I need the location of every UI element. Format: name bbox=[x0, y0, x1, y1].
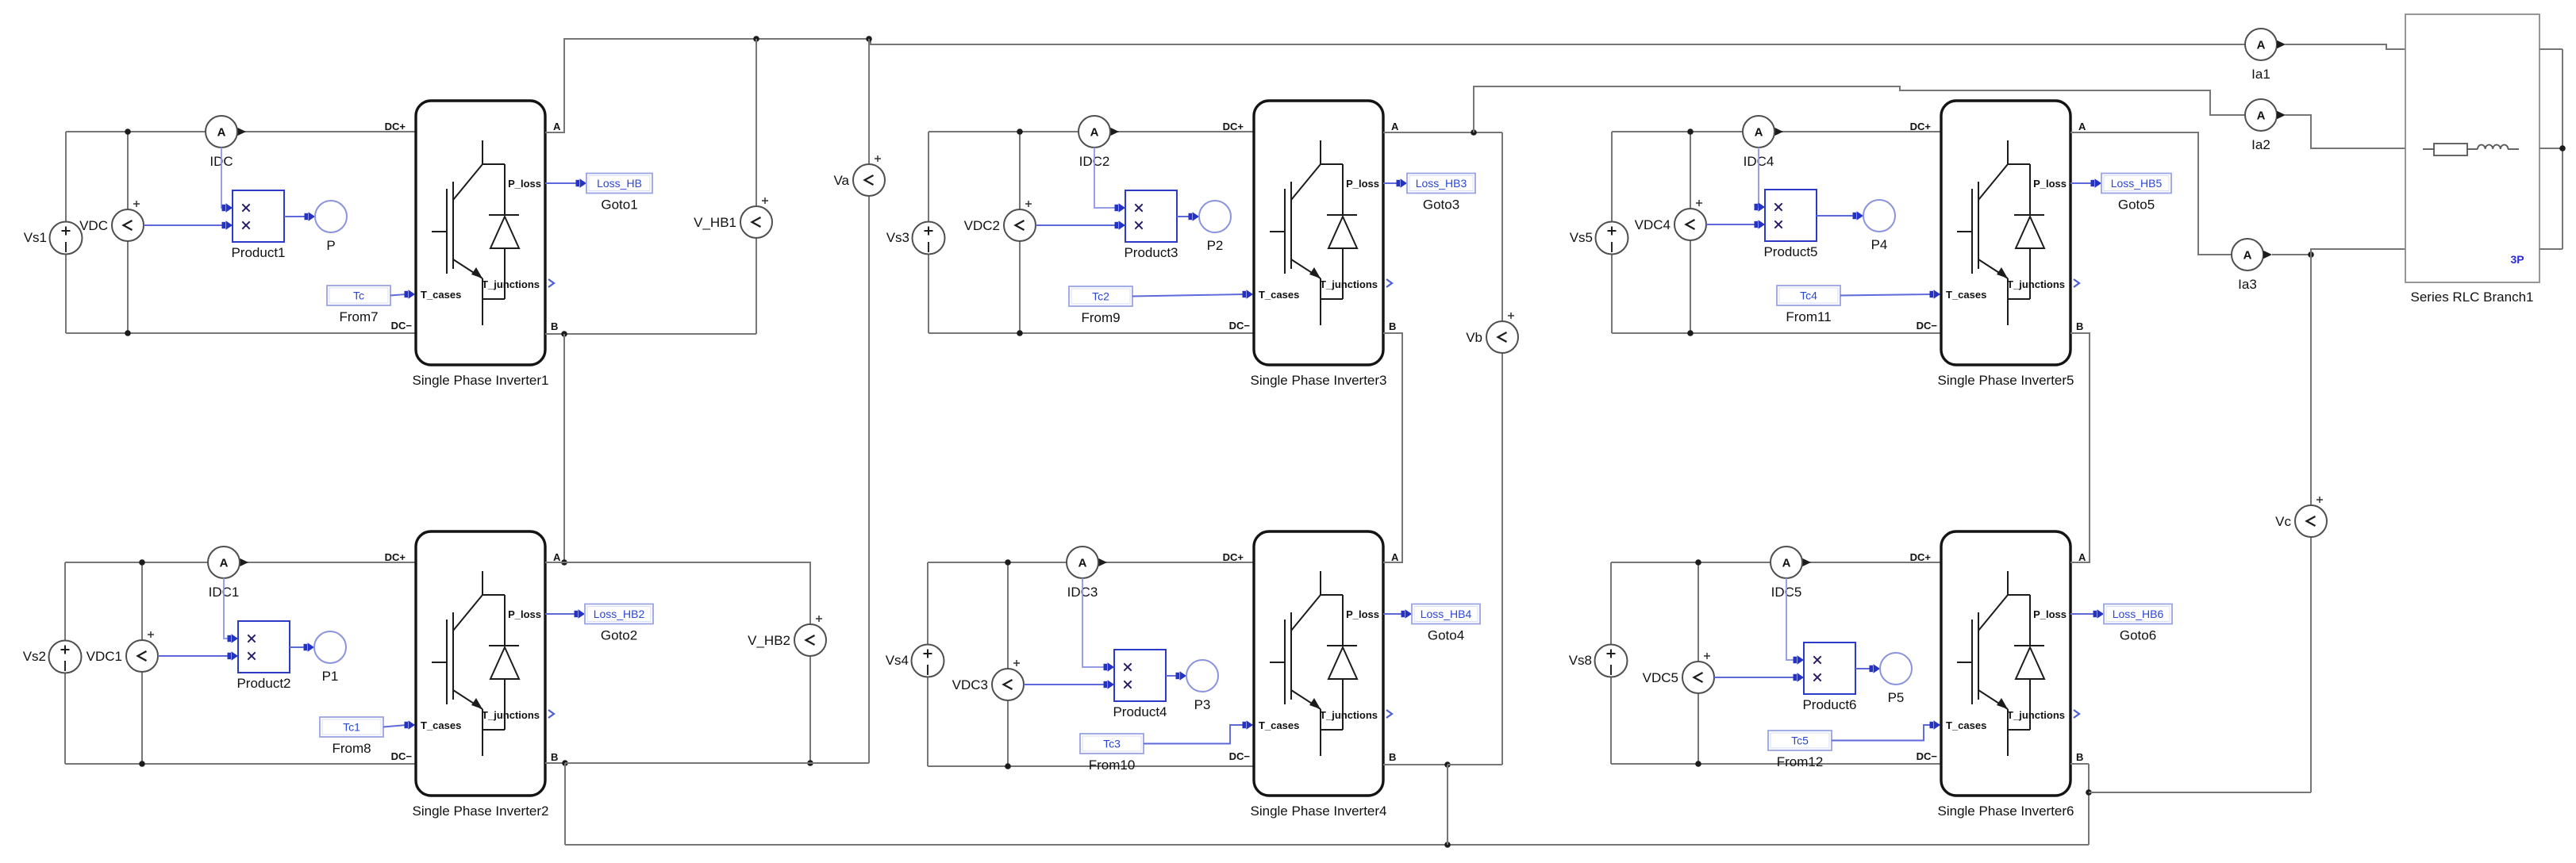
svg-text:DC−: DC− bbox=[1917, 320, 1938, 332]
svg-text:Single Phase Inverter5: Single Phase Inverter5 bbox=[1938, 373, 2074, 388]
svg-text:T_cases: T_cases bbox=[421, 289, 461, 301]
svg-text:P_loss: P_loss bbox=[2033, 608, 2067, 620]
svg-text:A: A bbox=[553, 551, 561, 563]
svg-text:P3: P3 bbox=[1194, 697, 1211, 712]
svg-text:Goto4: Goto4 bbox=[1428, 628, 1464, 643]
svg-text:A: A bbox=[1090, 126, 1099, 140]
svg-text:A: A bbox=[2243, 249, 2252, 263]
svg-text:A: A bbox=[553, 121, 561, 132]
svg-text:Single Phase Inverter6: Single Phase Inverter6 bbox=[1938, 804, 2074, 819]
svg-text:T_junctions: T_junctions bbox=[1320, 709, 1378, 721]
svg-text:VDC3: VDC3 bbox=[952, 677, 988, 692]
svg-text:Single Phase Inverter2: Single Phase Inverter2 bbox=[413, 804, 549, 819]
svg-text:T_junctions: T_junctions bbox=[2007, 278, 2065, 290]
svg-text:P: P bbox=[326, 238, 335, 253]
svg-text:P4: P4 bbox=[1871, 237, 1888, 252]
svg-text:P_loss: P_loss bbox=[508, 178, 541, 190]
svg-text:Series RLC Branch1: Series RLC Branch1 bbox=[2411, 290, 2534, 305]
svg-text:Loss_HB5: Loss_HB5 bbox=[2111, 177, 2163, 190]
svg-text:P_loss: P_loss bbox=[1346, 178, 1379, 190]
svg-text:Product2: Product2 bbox=[236, 676, 290, 691]
svg-text:DC−: DC− bbox=[391, 750, 413, 762]
svg-text:Vs8: Vs8 bbox=[1569, 653, 1592, 668]
svg-text:From8: From8 bbox=[332, 741, 371, 756]
svg-text:Vs2: Vs2 bbox=[23, 649, 46, 664]
svg-text:DC−: DC− bbox=[1229, 320, 1251, 332]
svg-text:Vs3: Vs3 bbox=[886, 230, 909, 245]
svg-text:B: B bbox=[551, 751, 558, 763]
svg-text:Single Phase Inverter4: Single Phase Inverter4 bbox=[1251, 804, 1387, 819]
svg-text:Tc: Tc bbox=[353, 290, 364, 302]
svg-text:T_cases: T_cases bbox=[1946, 289, 1986, 301]
svg-text:DC+: DC+ bbox=[385, 121, 406, 132]
svg-text:Product1: Product1 bbox=[231, 245, 285, 260]
svg-text:From9: From9 bbox=[1081, 310, 1120, 325]
svg-text:A: A bbox=[2257, 109, 2266, 123]
svg-text:From7: From7 bbox=[339, 309, 378, 324]
svg-text:Loss_HB3: Loss_HB3 bbox=[1416, 177, 1467, 190]
svg-text:Goto6: Goto6 bbox=[2120, 628, 2156, 643]
svg-text:Tc5: Tc5 bbox=[1791, 735, 1809, 747]
svg-text:Goto1: Goto1 bbox=[601, 198, 637, 213]
svg-text:V_HB1: V_HB1 bbox=[694, 215, 736, 230]
svg-text:Vs4: Vs4 bbox=[886, 653, 909, 668]
svg-text:From12: From12 bbox=[1777, 754, 1824, 769]
svg-text:Loss_HB: Loss_HB bbox=[597, 177, 642, 190]
svg-text:Ia2: Ia2 bbox=[2251, 137, 2270, 152]
svg-text:P_loss: P_loss bbox=[508, 608, 541, 620]
svg-text:DC−: DC− bbox=[391, 320, 413, 332]
svg-text:3P: 3P bbox=[2510, 253, 2524, 266]
svg-text:B: B bbox=[1389, 320, 1396, 332]
svg-text:B: B bbox=[2076, 320, 2083, 332]
svg-text:Loss_HB6: Loss_HB6 bbox=[2113, 608, 2164, 620]
svg-text:Loss_HB4: Loss_HB4 bbox=[1421, 608, 1472, 620]
svg-text:T_junctions: T_junctions bbox=[2007, 709, 2065, 721]
svg-text:Ia1: Ia1 bbox=[2251, 67, 2270, 82]
svg-text:Tc1: Tc1 bbox=[343, 721, 360, 734]
svg-text:T_cases: T_cases bbox=[1259, 719, 1299, 731]
svg-text:VDC5: VDC5 bbox=[1643, 670, 1678, 685]
svg-text:P_loss: P_loss bbox=[1346, 608, 1379, 620]
svg-text:DC+: DC+ bbox=[385, 551, 406, 563]
svg-text:P1: P1 bbox=[322, 669, 339, 684]
svg-text:A: A bbox=[2078, 121, 2086, 132]
svg-text:Vs5: Vs5 bbox=[1570, 230, 1593, 245]
svg-text:T_cases: T_cases bbox=[421, 719, 461, 731]
svg-text:DC−: DC− bbox=[1917, 750, 1938, 762]
svg-text:A: A bbox=[1391, 121, 1399, 132]
svg-text:From11: From11 bbox=[1786, 309, 1831, 324]
svg-text:A: A bbox=[2078, 551, 2086, 563]
svg-text:DC−: DC− bbox=[1229, 750, 1251, 762]
svg-text:P_loss: P_loss bbox=[2033, 178, 2067, 190]
svg-text:DC+: DC+ bbox=[1910, 121, 1932, 132]
svg-text:A: A bbox=[220, 557, 229, 570]
svg-text:Goto5: Goto5 bbox=[2118, 198, 2155, 213]
svg-text:A: A bbox=[1755, 126, 1763, 140]
svg-text:Vs1: Vs1 bbox=[24, 230, 47, 245]
svg-text:T_cases: T_cases bbox=[1259, 289, 1299, 301]
svg-text:DC+: DC+ bbox=[1223, 551, 1244, 563]
svg-text:Vc: Vc bbox=[2275, 514, 2291, 529]
svg-text:Tc2: Tc2 bbox=[1092, 290, 1109, 303]
svg-text:Goto3: Goto3 bbox=[1423, 198, 1459, 213]
svg-text:VDC1: VDC1 bbox=[87, 649, 122, 664]
svg-text:Tc4: Tc4 bbox=[1800, 290, 1817, 302]
svg-text:Loss_HB2: Loss_HB2 bbox=[594, 608, 645, 620]
svg-text:Product3: Product3 bbox=[1124, 245, 1178, 260]
svg-text:Single Phase Inverter1: Single Phase Inverter1 bbox=[413, 373, 549, 388]
svg-text:A: A bbox=[1782, 557, 1791, 570]
svg-text:Tc3: Tc3 bbox=[1103, 738, 1121, 750]
svg-text:T_junctions: T_junctions bbox=[482, 278, 540, 290]
svg-text:Product6: Product6 bbox=[1802, 697, 1856, 712]
svg-text:P5: P5 bbox=[1888, 690, 1905, 705]
svg-text:T_junctions: T_junctions bbox=[482, 709, 540, 721]
svg-text:Va: Va bbox=[833, 173, 849, 188]
svg-text:T_junctions: T_junctions bbox=[1320, 278, 1378, 290]
svg-text:B: B bbox=[2076, 751, 2083, 763]
svg-text:B: B bbox=[1389, 751, 1396, 763]
svg-text:DC+: DC+ bbox=[1910, 551, 1932, 563]
svg-text:Ia3: Ia3 bbox=[2238, 277, 2257, 292]
svg-text:VDC: VDC bbox=[79, 218, 108, 233]
svg-text:A: A bbox=[2257, 39, 2266, 52]
svg-text:Goto2: Goto2 bbox=[601, 628, 637, 643]
svg-text:Product4: Product4 bbox=[1113, 704, 1167, 719]
svg-text:VDC2: VDC2 bbox=[964, 218, 1000, 233]
svg-text:A: A bbox=[1078, 557, 1087, 570]
svg-text:From10: From10 bbox=[1089, 758, 1136, 773]
svg-text:V_HB2: V_HB2 bbox=[748, 633, 790, 648]
svg-text:T_cases: T_cases bbox=[1946, 719, 1986, 731]
svg-text:Product5: Product5 bbox=[1763, 244, 1817, 259]
svg-text:P2: P2 bbox=[1207, 238, 1224, 253]
svg-text:VDC4: VDC4 bbox=[1635, 217, 1671, 232]
svg-text:Vb: Vb bbox=[1466, 330, 1482, 345]
svg-text:A: A bbox=[1391, 551, 1399, 563]
svg-text:Single Phase Inverter3: Single Phase Inverter3 bbox=[1251, 373, 1387, 388]
svg-text:B: B bbox=[551, 320, 558, 332]
svg-text:DC+: DC+ bbox=[1223, 121, 1244, 132]
svg-text:A: A bbox=[217, 126, 226, 140]
